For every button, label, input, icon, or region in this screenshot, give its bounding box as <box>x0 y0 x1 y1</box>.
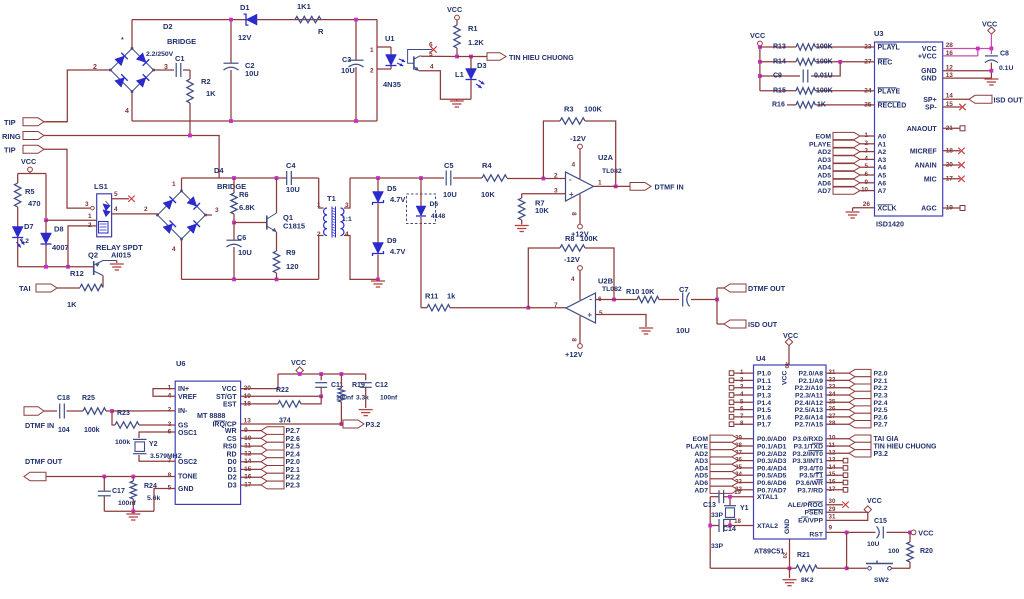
svg-text:A7: A7 <box>878 188 887 195</box>
svg-text:27: 27 <box>864 58 872 65</box>
svg-text:XTAL2: XTAL2 <box>757 523 778 530</box>
svg-text:0.01U: 0.01U <box>814 73 833 80</box>
svg-text:25: 25 <box>864 101 872 108</box>
svg-text:17: 17 <box>946 175 954 182</box>
svg-text:10K: 10K <box>535 206 549 215</box>
svg-text:OSC1: OSC1 <box>178 430 197 437</box>
svg-text:LS1: LS1 <box>94 182 108 191</box>
svg-text:5: 5 <box>740 398 744 405</box>
svg-text:16: 16 <box>946 50 954 57</box>
svg-text:*: * <box>121 37 124 44</box>
svg-text:BRIDGE: BRIDGE <box>167 37 196 46</box>
svg-text:10U: 10U <box>286 185 300 194</box>
svg-text:P2.7: P2.7 <box>286 428 301 435</box>
svg-text:4.7V: 4.7V <box>390 195 405 204</box>
svg-text:14: 14 <box>946 92 954 99</box>
svg-text:100k: 100k <box>84 427 100 434</box>
svg-text:VCC: VCC <box>922 46 937 53</box>
svg-text:P0.5/AD5: P0.5/AD5 <box>757 473 787 480</box>
svg-text:100K: 100K <box>584 105 603 114</box>
svg-text:D7: D7 <box>24 222 34 231</box>
svg-text:4: 4 <box>172 246 176 253</box>
svg-text:R16: R16 <box>772 101 785 108</box>
svg-text:8: 8 <box>740 420 744 427</box>
svg-text:30: 30 <box>829 498 836 505</box>
svg-text:100K: 100K <box>580 234 599 243</box>
svg-text:P2.3/A11: P2.3/A11 <box>795 393 823 400</box>
svg-text:470: 470 <box>28 199 41 208</box>
svg-text:3.3k: 3.3k <box>356 395 369 402</box>
svg-text:P2.2: P2.2 <box>286 475 301 482</box>
svg-text:P0.0/AD0: P0.0/AD0 <box>757 436 787 443</box>
svg-text:DTMF IN: DTMF IN <box>655 183 684 192</box>
svg-text:4.7V: 4.7V <box>390 247 405 256</box>
svg-text:P3.7/RD: P3.7/RD <box>797 487 823 494</box>
svg-text:P2.3: P2.3 <box>286 483 301 490</box>
svg-text:D4: D4 <box>214 166 224 175</box>
svg-text:20: 20 <box>781 552 787 558</box>
svg-text:ST/GT: ST/GT <box>216 394 237 401</box>
svg-text:28: 28 <box>946 42 954 49</box>
svg-text:GND: GND <box>921 76 937 83</box>
svg-text:4: 4 <box>572 162 576 169</box>
svg-text:1k: 1k <box>447 292 456 301</box>
svg-text:120: 120 <box>286 262 299 271</box>
svg-text:P2.7/A15: P2.7/A15 <box>795 422 824 429</box>
svg-text:VREF: VREF <box>178 394 197 401</box>
svg-text:P2.1/A9: P2.1/A9 <box>798 378 823 385</box>
svg-text:C6: C6 <box>237 233 246 242</box>
svg-text:19: 19 <box>734 489 741 496</box>
svg-text:AGC: AGC <box>921 206 937 213</box>
svg-text:AD4: AD4 <box>817 165 831 172</box>
svg-text:R2: R2 <box>201 77 211 86</box>
svg-text:P2.1: P2.1 <box>286 467 301 474</box>
svg-text:A2: A2 <box>878 149 887 156</box>
svg-text:R14: R14 <box>773 58 786 65</box>
svg-text:PLAYE: PLAYE <box>878 88 901 95</box>
svg-text:DTMF IN: DTMF IN <box>25 421 54 430</box>
svg-text:P1.2: P1.2 <box>757 385 771 392</box>
svg-text:24: 24 <box>864 87 872 94</box>
svg-text:23: 23 <box>864 44 872 51</box>
svg-text:GND: GND <box>178 486 194 493</box>
svg-text:-12V: -12V <box>564 255 580 264</box>
svg-text:DTMF OUT: DTMF OUT <box>25 457 63 466</box>
svg-text:TIN HIEU CHUONG: TIN HIEU CHUONG <box>874 444 938 451</box>
svg-text:-: - <box>589 295 592 304</box>
svg-text:ISD OUT: ISD OUT <box>994 95 1024 104</box>
svg-text:R: R <box>318 27 324 36</box>
svg-text:R9: R9 <box>286 248 296 257</box>
svg-text:DTMF OUT: DTMF OUT <box>748 284 786 293</box>
svg-text:R12: R12 <box>70 269 84 278</box>
svg-text:C1: C1 <box>175 54 185 63</box>
svg-text:R10 10K: R10 10K <box>626 287 655 296</box>
svg-text:3: 3 <box>215 207 219 214</box>
svg-text:AD3: AD3 <box>817 157 831 164</box>
svg-text:P1.1: P1.1 <box>757 378 771 385</box>
svg-text:1: 1 <box>172 181 176 188</box>
svg-text:1K1: 1K1 <box>297 2 311 11</box>
svg-text:3.579MHZ: 3.579MHZ <box>150 453 182 460</box>
svg-text:0.1U: 0.1U <box>999 65 1013 72</box>
svg-text:VCC: VCC <box>222 386 237 393</box>
svg-text:100K: 100K <box>816 87 833 94</box>
svg-text:D2: D2 <box>163 22 173 31</box>
svg-text:P2.5: P2.5 <box>874 407 888 414</box>
svg-text:7: 7 <box>554 302 558 309</box>
svg-text:TL082: TL082 <box>602 168 622 175</box>
svg-text:R1: R1 <box>468 24 478 33</box>
svg-text:1: 1 <box>88 213 92 220</box>
svg-text:33P: 33P <box>711 512 724 519</box>
svg-text:D5: D5 <box>387 184 397 193</box>
svg-text:C15: C15 <box>874 518 887 525</box>
svg-text:R11: R11 <box>425 292 438 301</box>
svg-text:AD7: AD7 <box>817 188 831 195</box>
svg-text:A1: A1 <box>878 141 887 148</box>
svg-text:D8: D8 <box>54 225 64 234</box>
svg-text:VCC: VCC <box>750 31 765 40</box>
svg-text:21: 21 <box>946 125 954 132</box>
svg-text:GND: GND <box>921 68 937 75</box>
svg-text:C1815: C1815 <box>283 222 305 231</box>
svg-text:12V: 12V <box>238 33 251 42</box>
svg-text:1: 1 <box>598 180 602 187</box>
svg-text:EA/VPP: EA/VPP <box>798 517 823 524</box>
svg-text:AD2: AD2 <box>817 149 831 156</box>
svg-text:ANAIN: ANAIN <box>915 163 937 170</box>
svg-text:D2: D2 <box>228 475 237 482</box>
svg-text:ISD OUT: ISD OUT <box>748 320 778 329</box>
svg-text:R21: R21 <box>797 552 810 559</box>
svg-text:P3.2: P3.2 <box>874 451 889 458</box>
svg-text:RST: RST <box>809 532 823 539</box>
svg-text:RD: RD <box>226 451 236 458</box>
svg-text:5: 5 <box>114 191 118 198</box>
svg-text:Y1: Y1 <box>740 505 749 512</box>
svg-text:P2.5/A13: P2.5/A13 <box>795 407 824 414</box>
svg-text:P2.3: P2.3 <box>874 393 888 400</box>
svg-text:19: 19 <box>946 205 954 212</box>
svg-text:AT89C51: AT89C51 <box>754 547 784 556</box>
svg-text:12: 12 <box>946 65 954 72</box>
svg-text:20: 20 <box>946 162 954 169</box>
svg-text:100: 100 <box>888 548 900 555</box>
svg-text:TAI GIA: TAI GIA <box>874 436 899 443</box>
svg-text:P3.4/T0: P3.4/T0 <box>799 465 823 472</box>
svg-text:10U: 10U <box>245 69 259 78</box>
svg-text:MT 8888: MT 8888 <box>197 411 225 420</box>
svg-text:31: 31 <box>829 514 836 521</box>
svg-text:VCC: VCC <box>867 498 882 505</box>
svg-text:4: 4 <box>430 64 434 71</box>
svg-text:4148: 4148 <box>431 213 446 220</box>
svg-text:8: 8 <box>570 212 577 216</box>
svg-text:D0: D0 <box>228 459 237 466</box>
svg-text:GS: GS <box>178 423 188 430</box>
svg-text:104: 104 <box>58 427 70 434</box>
svg-text:R8: R8 <box>565 234 575 243</box>
svg-text:-12V: -12V <box>570 134 586 143</box>
svg-text:P2.7: P2.7 <box>874 422 888 429</box>
svg-text:40: 40 <box>783 362 789 368</box>
svg-text:U2B: U2B <box>598 277 614 286</box>
svg-text:10U: 10U <box>443 190 457 199</box>
svg-text:1: 1 <box>370 47 374 54</box>
svg-text:P1.7: P1.7 <box>757 422 771 429</box>
svg-text:6: 6 <box>740 406 744 413</box>
svg-text:U3: U3 <box>874 29 884 38</box>
svg-text:1K: 1K <box>67 300 77 309</box>
svg-text:EOM: EOM <box>693 436 709 443</box>
svg-text:10U: 10U <box>867 541 880 548</box>
svg-text:R5: R5 <box>25 187 35 196</box>
svg-text:1K: 1K <box>817 101 826 108</box>
svg-text:ANAOUT: ANAOUT <box>907 126 938 133</box>
svg-text:VCC: VCC <box>982 20 997 29</box>
svg-text:P1.0: P1.0 <box>757 371 771 378</box>
svg-text:D3: D3 <box>477 61 487 70</box>
svg-text:SP+: SP+ <box>923 97 936 104</box>
svg-text:2: 2 <box>370 68 374 75</box>
svg-text:C12: C12 <box>375 382 388 389</box>
svg-text:1:1: 1:1 <box>342 216 352 223</box>
svg-text:33P: 33P <box>711 543 724 550</box>
svg-text:374: 374 <box>279 418 291 425</box>
svg-text:R25: R25 <box>82 395 95 402</box>
svg-text:2: 2 <box>740 376 744 383</box>
svg-text:A5: A5 <box>878 173 887 180</box>
svg-text:10U: 10U <box>238 248 252 257</box>
svg-text:P3.0/RXD: P3.0/RXD <box>793 436 823 443</box>
svg-text:P2.5: P2.5 <box>286 444 301 451</box>
svg-text:P2.4: P2.4 <box>286 451 301 458</box>
svg-text:WR: WR <box>225 428 237 435</box>
svg-text:+VCC: +VCC <box>918 54 937 61</box>
svg-text:-: - <box>569 175 572 184</box>
svg-text:C13: C13 <box>703 502 716 509</box>
svg-text:1.2K: 1.2K <box>468 38 484 47</box>
svg-text:9: 9 <box>829 525 833 532</box>
svg-text:4N35: 4N35 <box>383 80 401 89</box>
svg-text:ISD1420: ISD1420 <box>876 220 904 229</box>
svg-text:Q2: Q2 <box>88 251 98 260</box>
svg-text:7: 7 <box>740 413 744 420</box>
svg-text:T1: T1 <box>327 194 336 203</box>
svg-text:AD5: AD5 <box>694 473 708 480</box>
svg-text:A0: A0 <box>878 134 887 141</box>
svg-text:+12V: +12V <box>565 350 583 359</box>
svg-text:4: 4 <box>125 108 129 115</box>
svg-text:P0.4/AD4: P0.4/AD4 <box>757 465 787 472</box>
svg-text:P3.2/INT0: P3.2/INT0 <box>792 451 823 458</box>
svg-text:4: 4 <box>571 276 575 283</box>
svg-text:ALE/PROG: ALE/PROG <box>788 502 824 509</box>
svg-text:AD5: AD5 <box>817 173 831 180</box>
svg-text:C9: C9 <box>773 73 782 80</box>
svg-text:2: 2 <box>144 206 148 213</box>
svg-text:C7: C7 <box>679 285 689 294</box>
svg-text:D6: D6 <box>430 201 439 208</box>
svg-text:A3: A3 <box>878 157 887 164</box>
svg-text:10U: 10U <box>341 66 355 75</box>
svg-text:P3.6/WR: P3.6/WR <box>796 480 823 487</box>
svg-text:MICREF: MICREF <box>910 148 938 155</box>
svg-text:AD4: AD4 <box>694 465 708 472</box>
svg-text:6.8K: 6.8K <box>239 203 255 212</box>
svg-text:A6: A6 <box>878 180 887 187</box>
svg-text:D1: D1 <box>240 3 250 12</box>
svg-text:P3.3/INT1: P3.3/INT1 <box>792 458 823 465</box>
svg-text:2: 2 <box>317 231 321 238</box>
svg-text:8K2: 8K2 <box>801 577 814 584</box>
svg-text:C4: C4 <box>286 161 296 170</box>
svg-text:3: 3 <box>345 202 349 209</box>
svg-text:P1.6: P1.6 <box>757 414 771 421</box>
svg-text:IN+: IN+ <box>178 386 189 393</box>
svg-text:Y2: Y2 <box>149 441 158 448</box>
svg-text:U6: U6 <box>176 359 186 368</box>
svg-text:XCLK: XCLK <box>878 205 897 212</box>
svg-text:1: 1 <box>317 202 321 209</box>
svg-text:10K: 10K <box>481 190 495 199</box>
svg-text:AD6: AD6 <box>817 180 831 187</box>
svg-text:100K: 100K <box>816 44 833 51</box>
svg-text:A4: A4 <box>878 165 887 172</box>
svg-text:GND: GND <box>784 519 791 534</box>
svg-text:L1: L1 <box>455 70 464 79</box>
svg-text:C14: C14 <box>723 526 736 533</box>
svg-text:5: 5 <box>429 51 433 58</box>
svg-text:TIP: TIP <box>4 118 16 127</box>
svg-text:100K: 100K <box>816 58 833 65</box>
svg-text:AD7: AD7 <box>694 487 708 494</box>
svg-text:U1: U1 <box>385 34 395 43</box>
svg-text:SP-: SP- <box>925 105 937 112</box>
svg-text:TONE: TONE <box>178 473 198 480</box>
svg-text:R6: R6 <box>239 190 249 199</box>
svg-text:PLAYL: PLAYL <box>878 45 901 52</box>
svg-text:EOM: EOM <box>816 134 832 141</box>
svg-text:P2.2: P2.2 <box>874 385 888 392</box>
svg-text:R20: R20 <box>920 548 933 555</box>
svg-text:15: 15 <box>946 101 954 108</box>
svg-text:10U: 10U <box>676 326 690 335</box>
svg-text:VCC: VCC <box>447 5 462 14</box>
svg-text:P1.4: P1.4 <box>757 400 771 407</box>
svg-text:R13: R13 <box>773 44 786 51</box>
svg-text:D1: D1 <box>228 467 237 474</box>
svg-text:TAI: TAI <box>19 284 31 293</box>
svg-text:AI015: AI015 <box>111 251 131 260</box>
svg-text:P2.6: P2.6 <box>286 436 301 443</box>
svg-text:100nf: 100nf <box>380 395 398 402</box>
svg-text:R23: R23 <box>117 410 130 417</box>
svg-text:VCC: VCC <box>21 157 36 166</box>
svg-text:P2.0: P2.0 <box>874 371 888 378</box>
svg-text:VCC: VCC <box>783 331 798 340</box>
svg-text:P2.0/A8: P2.0/A8 <box>798 371 823 378</box>
svg-text:6: 6 <box>429 42 433 49</box>
svg-text:2: 2 <box>554 173 558 180</box>
svg-text:U4: U4 <box>756 354 766 363</box>
svg-text:PLAYE: PLAYE <box>809 141 832 148</box>
svg-text:REC: REC <box>878 59 893 66</box>
svg-text:P2.6/A14: P2.6/A14 <box>795 414 824 421</box>
svg-text:C17: C17 <box>112 488 125 495</box>
svg-text:100k: 100k <box>115 439 130 446</box>
svg-text:2.2/250V: 2.2/250V <box>146 51 174 58</box>
svg-text:P0.2/AD2: P0.2/AD2 <box>757 451 787 458</box>
svg-text:AD6: AD6 <box>694 480 708 487</box>
svg-text:D3: D3 <box>228 483 237 490</box>
svg-text:26: 26 <box>863 201 871 208</box>
svg-text:C3: C3 <box>342 55 351 64</box>
svg-text:EST: EST <box>223 401 237 408</box>
svg-text:AD3: AD3 <box>694 458 708 465</box>
svg-text:TIP: TIP <box>4 146 16 155</box>
svg-text:PLAYE: PLAYE <box>686 444 709 451</box>
svg-text:VCC: VCC <box>782 371 789 385</box>
svg-text:TL082: TL082 <box>602 286 622 293</box>
svg-text:18: 18 <box>946 147 954 154</box>
svg-text:SW2: SW2 <box>874 577 889 584</box>
svg-text:P2.4: P2.4 <box>874 400 888 407</box>
svg-text:RS0: RS0 <box>223 444 237 451</box>
svg-text:MIC: MIC <box>924 176 937 183</box>
svg-text:1K: 1K <box>206 89 216 98</box>
svg-text:+: + <box>569 190 574 199</box>
svg-text:TIN HIEU CHUONG: TIN HIEU CHUONG <box>509 53 574 62</box>
svg-text:C8: C8 <box>1000 51 1009 58</box>
svg-text:P0.1/AD1: P0.1/AD1 <box>757 444 787 451</box>
svg-text:3: 3 <box>85 201 89 208</box>
svg-text:RING: RING <box>2 132 21 141</box>
svg-text:P2.4/A12: P2.4/A12 <box>795 400 824 407</box>
svg-text:P2.1: P2.1 <box>874 378 888 385</box>
svg-text:2: 2 <box>88 222 92 229</box>
svg-text:8: 8 <box>168 472 172 479</box>
svg-text:XTAL1: XTAL1 <box>757 494 778 501</box>
svg-text:1: 1 <box>740 369 744 376</box>
svg-text:13: 13 <box>946 72 954 79</box>
svg-text:2: 2 <box>168 407 172 414</box>
svg-text:CS: CS <box>227 436 237 443</box>
svg-text:P2.2/A10: P2.2/A10 <box>795 385 824 392</box>
svg-text:P2.6: P2.6 <box>874 414 888 421</box>
svg-text:3: 3 <box>740 384 744 391</box>
svg-text:IN-: IN- <box>178 408 188 415</box>
svg-text:R4: R4 <box>482 161 492 170</box>
svg-text:U2A: U2A <box>598 153 614 162</box>
svg-text:P1.3: P1.3 <box>757 393 771 400</box>
svg-text:+: + <box>587 311 592 320</box>
svg-text:VCC: VCC <box>918 529 933 538</box>
svg-text:D9: D9 <box>387 236 397 245</box>
svg-text:R22: R22 <box>276 387 289 394</box>
svg-text:4007: 4007 <box>52 243 69 252</box>
svg-text:P2.0: P2.0 <box>286 459 301 466</box>
svg-text:4: 4 <box>345 231 349 238</box>
svg-text:C5: C5 <box>444 161 454 170</box>
svg-text:P3.5/T1: P3.5/T1 <box>799 473 823 480</box>
svg-text:R3: R3 <box>564 105 574 114</box>
svg-text:L2: L2 <box>21 238 29 245</box>
svg-text:C18: C18 <box>57 395 70 402</box>
svg-text:P0.6/AD6: P0.6/AD6 <box>757 480 787 487</box>
